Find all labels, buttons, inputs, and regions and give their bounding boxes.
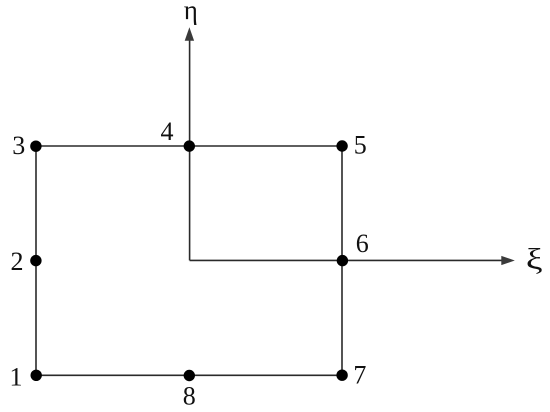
svg-text:6: 6 bbox=[356, 229, 369, 258]
node 3 dot bbox=[30, 141, 41, 152]
node 7 dot bbox=[336, 370, 347, 381]
svg-text:7: 7 bbox=[353, 361, 366, 390]
node 4 dot bbox=[184, 140, 195, 151]
svg-text:3: 3 bbox=[12, 131, 25, 160]
wire right edge (node 5 - node 6 - node 7) bbox=[341, 146, 343, 375]
axis xi (horizontal from origin, arrow right) bbox=[190, 256, 515, 265]
wire left edge (node 3 - node 2 - node 1) bbox=[35, 146, 37, 375]
svg-text:8: 8 bbox=[183, 381, 196, 410]
node 5 dot bbox=[336, 140, 347, 151]
axis eta (vertical from origin, arrow up) bbox=[185, 27, 194, 260]
svg-text:5: 5 bbox=[354, 131, 367, 160]
svg-text:4: 4 bbox=[161, 117, 174, 146]
svg-text:2: 2 bbox=[11, 247, 24, 276]
node 2 dot bbox=[30, 255, 41, 266]
svg-text:1: 1 bbox=[10, 362, 23, 391]
svg-text:ξ: ξ bbox=[526, 243, 543, 276]
svg-text:η: η bbox=[184, 0, 198, 25]
node 1 dot bbox=[31, 370, 42, 381]
node 6 dot bbox=[337, 255, 348, 266]
wire top edge (node 3 - node 4 - node 5) bbox=[36, 145, 342, 147]
wire bottom edge (node 1 - node 8 - node 7) bbox=[36, 374, 342, 376]
node 8 dot bbox=[184, 370, 195, 381]
